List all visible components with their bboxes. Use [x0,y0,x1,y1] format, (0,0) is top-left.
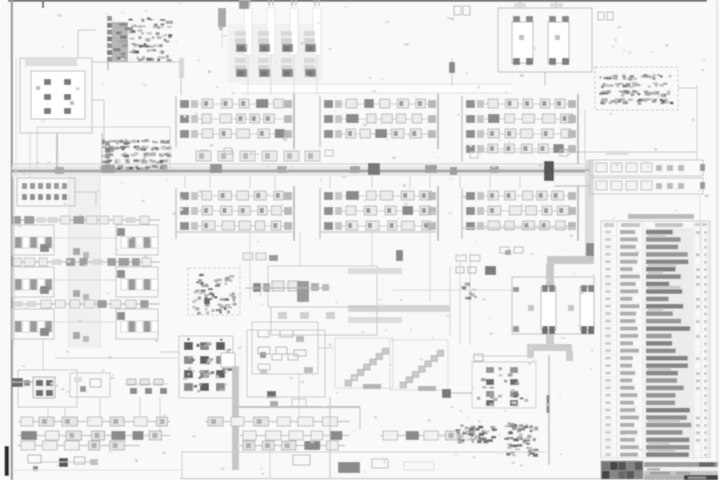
wire T1 stem [544,72,546,85]
control U9 component row [245,281,330,302]
amplifier stage A2 [12,258,160,300]
wash horizontal band [240,84,512,93]
IC U3 register bank [176,94,294,149]
control gray bar low [348,317,402,323]
control gray bar mid [348,305,450,312]
wash resistor grid [228,24,322,82]
title block row 3 [644,471,718,475]
node dark right band [586,243,594,259]
title block stamp grid [601,461,643,479]
IC U6 register bank [176,186,294,241]
diode ladder VD1 row [590,160,705,176]
wire vertical x218 [218,8,226,48]
bus dark segment 1 [102,165,115,173]
node U11 dark [267,391,276,398]
transformer T1 box [498,8,592,72]
wire left column [14,58,16,345]
contact chain row C [18,441,345,450]
wire top-left run [92,62,181,95]
wire K1 left drop [29,133,31,178]
button SB1 dark [59,458,68,467]
filter Z1 cluster [192,274,237,315]
control box U10 [271,307,377,335]
node grid corner [239,0,249,9]
wire ladder feed [554,170,590,186]
border frame top line [8,0,707,2]
wire chain bus [232,407,360,430]
wire top mid drop [449,58,455,86]
control box U9 [268,266,377,307]
label plate bottom [338,462,360,473]
contact chain row A [18,417,350,426]
transistor array VT2 box [472,362,536,408]
connector J1 stubs [244,8,321,55]
wire bank bottoms [176,228,576,232]
capacitor C2 pair [598,12,613,20]
parts table desc column wash [645,228,693,456]
wash central trunk [69,172,100,348]
IC U8 register bank [462,186,578,241]
transformer T1 windings [512,22,569,63]
component row above bus [196,151,320,161]
bus junction J4 [544,161,554,181]
wire K2 bottom left [474,354,527,361]
title block top bar [644,462,718,467]
wire resistor drops [248,55,317,95]
capacitor C6 box [221,353,235,367]
bus junction J2 [368,163,380,175]
wire G1 left drop [584,110,586,160]
vertical gray band right [585,160,594,260]
relay K1 outer box [20,58,92,133]
title block bottom bar [644,475,718,480]
control gray bar top [348,268,402,274]
transistor array VT1 box [179,336,233,398]
chain cluster dark 1 [456,424,498,443]
IC U2 text cluster [100,133,171,172]
bus dark segment 3 [277,166,287,173]
relay K3 contacts [33,377,55,398]
wire VT1 trunk [232,366,239,470]
parts table rows [601,230,710,458]
IC U4 register bank [320,94,438,149]
thick gray trunk wire [527,256,594,361]
wire G1 out [480,88,697,152]
border frame left line [11,0,13,480]
wire left bottom [12,381,33,383]
transformer T1 label ticks [514,2,563,8]
amplifier stage A1 [12,216,160,258]
left margin black bar [5,446,10,476]
title block row 2 [644,467,718,471]
resistor stair RP2 [390,340,448,391]
parts table header [604,223,707,227]
diode ladder VD2 row [590,178,705,194]
module box A4 [18,370,77,407]
wire chain entry [270,374,306,417]
contact chain row B [18,431,480,440]
border frame bottom line [180,478,718,480]
connector X2 cluster [456,255,496,300]
bus junction J3 [450,167,457,175]
module A6 parts [258,347,313,374]
module box A6 [247,330,325,397]
amplifier stage A3 [12,300,160,342]
wire U1 left [78,30,96,58]
connector J1 pins [246,0,319,6]
filter Z1 dashed box [188,268,240,315]
wire K1 stem [56,133,58,168]
box around U2 [37,127,170,172]
module box A5 [70,373,110,397]
bus dark segment 0 [55,167,64,174]
IC U5 register bank [462,94,578,164]
oscillator G1 dashed box [595,67,678,110]
IC U1 text cluster [107,16,173,70]
wire stair link [318,290,512,348]
relay K2 windings [513,285,594,334]
switch S2 box [372,459,434,470]
wire center verticals [250,232,460,344]
wire bottom rail [182,397,545,478]
node left feed dark [12,378,30,387]
wire VT2 feed [451,392,472,394]
fiducial tick top-left [42,0,44,8]
relay K2 box [512,277,594,334]
resistor stair RP1 [335,338,393,389]
bottom-left parts [28,455,98,471]
wire VT1 left [160,351,179,353]
node VT2 feed dark [442,389,451,398]
parts table title [628,214,694,219]
wire module-chain stubs [48,397,160,431]
diode group VD4 [125,379,168,394]
wire control verticals [450,252,470,345]
node control dark [396,250,403,261]
transformer T1 pads [513,16,569,65]
resistor array R1-R8 [235,31,316,77]
capacitor C7 pair top [454,6,470,15]
border frame right line [716,0,718,480]
wire bank stubs upper [200,148,568,158]
diode group VD3 oval [17,178,75,206]
bus dark segment 6 [490,166,499,173]
oscillator G1 circuit cluster [599,74,673,105]
wire bottom left rail [12,469,180,471]
bus drop wires [185,176,520,188]
bus dark segment 4 [350,166,360,173]
switch S1 box [293,455,310,465]
chain cluster dark 2 [504,422,538,457]
node Z1 dark [204,298,210,304]
wire right drop x549 [548,355,549,465]
relay K1 contacts [31,71,85,119]
wire oval out [75,192,96,206]
control box U11 [252,322,318,374]
wire right verticals [697,85,700,250]
wire modules top rail [43,338,178,370]
wire U2 link [92,100,104,140]
transistor array VT2 pads [477,367,528,406]
bus main horizontal [12,164,590,171]
parts table frame [601,221,710,458]
capacitor C5 pair [500,247,523,255]
vertical bar node A [179,58,184,78]
bus band [12,166,590,176]
component row above U9 [243,253,278,261]
label ladder [606,151,628,155]
bus dark segment 2 [210,164,222,173]
vertical bar node B [220,10,225,26]
bus dark segment 5 [425,165,437,173]
IC U7 register bank [320,186,438,241]
transistor array VT1 pads [183,338,232,393]
